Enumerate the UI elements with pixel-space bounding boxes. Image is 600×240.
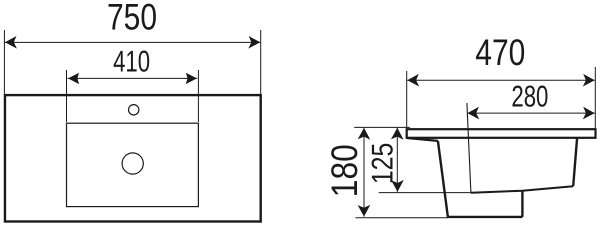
extension line 750 left	[3, 30, 5, 94]
arrowhead 125 bottom	[391, 180, 404, 192]
left under-slab lip	[407, 138, 438, 141]
dimension line 410	[68, 77, 198, 79]
arrowhead 750 left	[5, 36, 17, 49]
left outer wall	[438, 141, 448, 217]
svg-text:180: 180	[324, 144, 365, 197]
inner bowl wall (also 280 extension)	[467, 103, 471, 193]
arrowhead 180 bottom	[358, 205, 371, 217]
basin inner bowl rectangle	[67, 123, 199, 206]
right outer wall	[573, 138, 577, 186]
top slab	[407, 129, 596, 138]
svg-text:470: 470	[475, 32, 525, 73]
pedestal bottom	[447, 216, 523, 218]
extension line 470 left	[406, 71, 408, 128]
dimension line 180	[363, 128, 365, 217]
arrowhead 125 top	[391, 128, 404, 140]
arrowhead 280 left	[467, 107, 479, 120]
arrowhead 280 right	[583, 107, 595, 120]
svg-text:125: 125	[367, 143, 400, 185]
dimension line 750	[5, 41, 260, 43]
drain hole circle	[122, 153, 143, 174]
arrowhead 410 right	[186, 73, 197, 84]
arrowhead 180 top	[358, 128, 371, 140]
svg-text:410: 410	[113, 45, 150, 78]
extension line bottom for 125	[379, 192, 471, 194]
dimension line 470	[407, 79, 595, 81]
svg-text:750: 750	[107, 0, 157, 38]
basin outer rectangle	[5, 95, 261, 221]
dimension line 125	[396, 128, 398, 192]
extension line 470/280 right	[594, 67, 596, 129]
pedestal right edge	[521, 190, 523, 217]
extension line 410 right	[197, 70, 199, 122]
extension line 750 right	[260, 30, 262, 94]
faucet hole circle	[129, 105, 139, 115]
step line	[471, 186, 573, 193]
arrowhead 750 right	[248, 36, 260, 49]
arrowhead 410 left	[68, 73, 79, 84]
arrowhead 470 right	[583, 74, 595, 87]
dimension line 280	[467, 112, 594, 114]
arrowhead 470 left	[407, 74, 419, 87]
svg-text:280: 280	[511, 80, 548, 113]
extension line top for 180/125	[354, 126, 410, 128]
extension line bottom for 180	[356, 217, 449, 219]
extension line 410 left	[66, 70, 68, 122]
